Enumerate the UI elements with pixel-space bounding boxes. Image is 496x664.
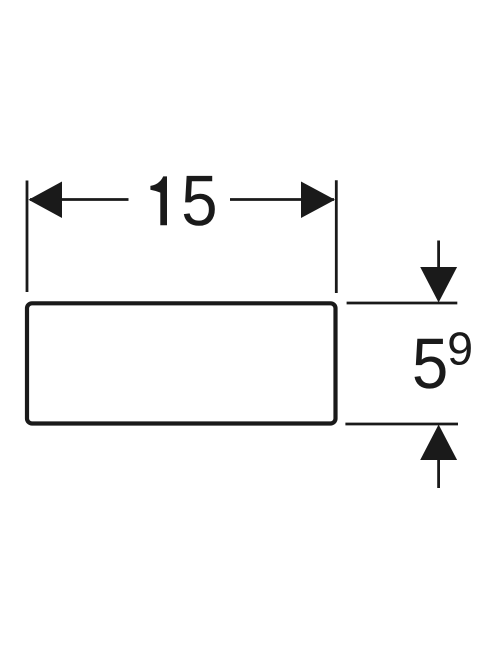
- dimension line 15 right segment: [230, 198, 334, 201]
- extension line right: [335, 180, 338, 293]
- arrowhead down: [420, 267, 457, 303]
- dimension stem bottom: [437, 459, 440, 488]
- dimension label 15: digit 1: [150, 176, 167, 225]
- extension line top (vertical dim): [347, 302, 458, 305]
- dimension line 15 left segment: [30, 198, 129, 201]
- arrowhead left: [29, 182, 63, 219]
- dimension stem top: [437, 241, 440, 269]
- extension line bottom (vertical dim): [345, 423, 458, 426]
- dimension label superscript 9: [449, 332, 470, 365]
- arrowhead up: [420, 425, 457, 461]
- dimension label 5: [415, 339, 446, 389]
- extension line left: [26, 181, 29, 293]
- profile rectangle: [27, 303, 336, 423]
- arrowhead right: [301, 182, 335, 219]
- dimension label 15: digit 5: [184, 176, 215, 226]
